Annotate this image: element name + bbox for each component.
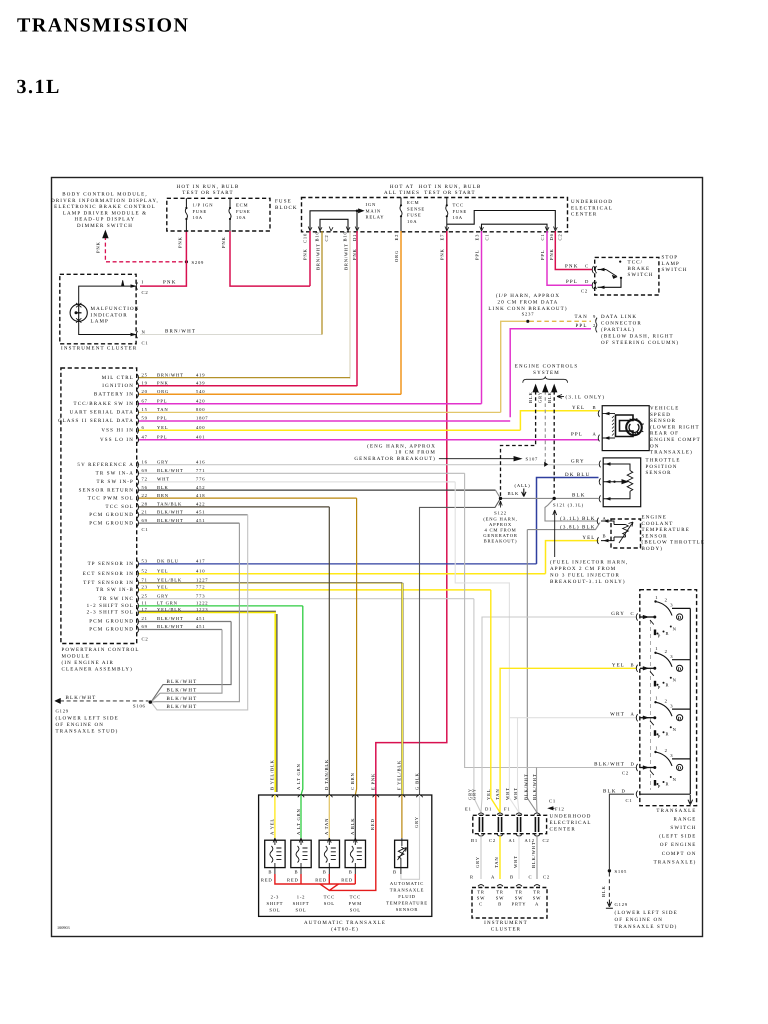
svg-text:BRN/WHT: BRN/WHT — [157, 372, 184, 377]
svg-text:S209: S209 — [192, 260, 205, 265]
svg-text:GRY: GRY — [538, 391, 543, 403]
wire PNK C10 riser — [309, 231, 311, 286]
svg-text:S106: S106 — [133, 703, 146, 708]
switch internals — [598, 269, 607, 271]
svg-text:PPL: PPL — [157, 399, 167, 404]
svg-text:B: B — [603, 533, 607, 538]
svg-text:C: C — [585, 263, 589, 268]
transaxle pin E — [373, 795, 379, 797]
svg-text:3: 3 — [670, 603, 673, 608]
svg-text:SHIFT: SHIFT — [293, 901, 310, 906]
svg-text:BLK/WHT: BLK/WHT — [157, 616, 184, 621]
range switch section 4 — [636, 745, 690, 789]
svg-text:RED: RED — [287, 878, 299, 883]
svg-text:N: N — [142, 330, 146, 335]
svg-text:SWITCH: SWITCH — [662, 267, 688, 273]
svg-text:TR: TR — [533, 890, 541, 895]
wire BLK D C1 from bus — [640, 793, 690, 795]
svg-text:GENERATOR: GENERATOR — [483, 533, 518, 538]
svg-text:TRANSAXLE STUD): TRANSAXLE STUD) — [615, 924, 678, 930]
svg-text:BLK/WHT: BLK/WHT — [66, 695, 97, 701]
svg-text:B: B — [510, 874, 514, 879]
svg-text:RED: RED — [341, 878, 353, 883]
svg-text:(LOWER LEFT SIDE: (LOWER LEFT SIDE — [615, 910, 678, 916]
svg-text:S107: S107 — [526, 457, 539, 462]
svg-text:410: 410 — [196, 568, 205, 573]
svg-text:C1: C1 — [485, 234, 490, 241]
svg-text:(ENG HARN,: (ENG HARN, — [483, 517, 517, 522]
svg-text:451: 451 — [196, 518, 205, 523]
svg-text:10A: 10A — [453, 215, 463, 220]
svg-text:GRY: GRY — [472, 788, 477, 800]
label I/P harn S237 — [488, 293, 567, 316]
svg-text:TAN: TAN — [157, 407, 168, 412]
svg-text:(4T60-E): (4T60-E) — [331, 927, 359, 933]
svg-text:(FUEL INJECTOR HARN,: (FUEL INJECTOR HARN, — [550, 560, 628, 566]
svg-text:PNK: PNK — [96, 241, 101, 253]
svg-text:UNDERHOOD: UNDERHOOD — [550, 814, 592, 820]
dashed BLK to G129 — [608, 873, 610, 900]
svg-text:TEMPERATURE: TEMPERATURE — [642, 527, 691, 533]
svg-text:B YEL/BLK: B YEL/BLK — [270, 759, 275, 790]
underhood electrical center box — [302, 198, 568, 232]
svg-text:D: D — [622, 788, 626, 793]
transaxle pin D — [326, 795, 332, 797]
svg-text:A LT GRN: A LT GRN — [296, 808, 301, 835]
svg-text:E PNK: E PNK — [371, 773, 376, 790]
svg-text:47: 47 — [142, 435, 148, 440]
svg-text:SENSE: SENSE — [407, 206, 425, 211]
svg-text:C10: C10 — [303, 233, 308, 243]
wire YEL 400 riser to VSS B — [520, 411, 598, 431]
svg-text:C2: C2 — [543, 838, 550, 843]
wire ORG E2 riser to PCM 20 — [400, 231, 402, 394]
wire BRN/WHT B10 riser to IC — [321, 231, 323, 335]
svg-text:P: P — [658, 634, 661, 639]
svg-text:BREAKOUT): BREAKOUT) — [484, 539, 518, 544]
svg-text:BLK: BLK — [547, 391, 552, 403]
wire BLK to S105 — [609, 794, 634, 869]
svg-text:11: 11 — [142, 601, 148, 606]
svg-text:GRY: GRY — [571, 459, 585, 465]
svg-text:AUTOMATIC TRANSAXLE: AUTOMATIC TRANSAXLE — [304, 920, 386, 926]
label hot in run — [177, 184, 240, 196]
svg-text:9: 9 — [593, 314, 596, 319]
svg-text:HOT IN RUN, BULB: HOT IN RUN, BULB — [177, 184, 240, 190]
svg-text:2: 2 — [665, 748, 668, 753]
svg-text:451: 451 — [196, 624, 205, 629]
svg-text:ECT SENSOR IN: ECT SENSOR IN — [83, 571, 134, 577]
svg-text:TR SW IN-A: TR SW IN-A — [96, 471, 134, 477]
svg-text:HEAD-UP DISPLAY: HEAD-UP DISPLAY — [75, 217, 136, 223]
S122 label — [483, 511, 518, 544]
svg-text:WHT: WHT — [157, 477, 170, 482]
svg-text:OF ENGINE: OF ENGINE — [660, 842, 697, 848]
dashed BLK/WHT to G129 left — [60, 700, 149, 702]
svg-text:MIL CTRL: MIL CTRL — [102, 375, 134, 381]
svg-text:NO 3 FUEL INJECTOR: NO 3 FUEL INJECTOR — [550, 573, 620, 579]
wire F12 to cluster at 500.0 — [499, 836, 501, 879]
wire BRN/WHT B10 riser to PCM MIL — [349, 231, 351, 379]
svg-text:451: 451 — [196, 510, 205, 515]
svg-text:INSTRUMENT: INSTRUMENT — [484, 920, 528, 926]
svg-text:422: 422 — [196, 502, 205, 507]
svg-text:TEMPERATURE: TEMPERATURE — [386, 901, 428, 906]
svg-text:ENGINE CONTROLS: ENGINE CONTROLS — [515, 364, 579, 370]
svg-text:YEL: YEL — [157, 585, 168, 590]
svg-text:BATTERY IN: BATTERY IN — [94, 391, 134, 397]
wire S121 to TPS BLK — [554, 497, 598, 499]
svg-text:C2: C2 — [581, 289, 588, 294]
svg-text:INDICATOR: INDICATOR — [91, 312, 128, 318]
svg-text:(BELOW THROTTLE: (BELOW THROTTLE — [642, 540, 706, 546]
svg-text:B: B — [349, 870, 353, 875]
svg-text:ENGINE: ENGINE — [642, 515, 668, 521]
svg-text:D: D — [631, 762, 635, 767]
svg-text:GENERATOR BREAKOUT): GENERATOR BREAKOUT) — [354, 456, 436, 462]
svg-text:28: 28 — [142, 502, 148, 507]
svg-text:21: 21 — [142, 510, 148, 515]
connector bar at 519.0 — [517, 817, 520, 832]
svg-text:771: 771 — [196, 468, 205, 473]
svg-text:10A: 10A — [236, 215, 246, 220]
svg-text:MODULE: MODULE — [62, 654, 90, 660]
TCC fuse bus bars — [447, 211, 556, 230]
wire F12 to cluster at 519.0 — [518, 836, 520, 879]
svg-text:TR SW INC: TR SW INC — [99, 596, 134, 602]
svg-text:FUSE: FUSE — [193, 209, 207, 214]
svg-text:A: A — [491, 874, 495, 879]
wire PNK ECM fuse to UEC C10 — [230, 231, 310, 286]
transaxle pin B — [272, 795, 278, 797]
svg-text:TR: TR — [477, 890, 485, 895]
wire BRN 418 riser to transaxle C — [355, 498, 356, 795]
F12 underhood electrical center connector box — [473, 815, 547, 833]
label hot at all times — [384, 184, 481, 196]
svg-text:D: D — [678, 716, 682, 722]
svg-text:OF ENGINE ON: OF ENGINE ON — [615, 917, 664, 923]
svg-text:C2: C2 — [543, 874, 550, 879]
svg-text:CLASS II SERIAL DATA: CLASS II SERIAL DATA — [58, 418, 134, 424]
svg-text:VSS LO IN: VSS LO IN — [100, 437, 134, 443]
svg-text:20: 20 — [142, 389, 148, 394]
svg-text:P: P — [658, 685, 661, 690]
svg-text:B: B — [295, 870, 299, 875]
svg-text:B10: B10 — [343, 231, 348, 241]
wire F12 to cluster at 481.0 — [480, 836, 482, 879]
svg-text:TRANSAXLE): TRANSAXLE) — [654, 859, 697, 865]
svg-text:C2: C2 — [558, 234, 563, 241]
svg-text:2: 2 — [665, 698, 668, 703]
wire TAN dashed to DLC 9 — [529, 320, 591, 322]
svg-text:C1: C1 — [626, 798, 633, 803]
svg-text:451: 451 — [196, 616, 205, 621]
svg-text:TR: TR — [496, 890, 504, 895]
pin arrows on UEC bottom — [308, 227, 312, 232]
svg-text:SENSOR: SENSOR — [650, 418, 676, 424]
svg-text:A YEL: A YEL — [270, 818, 275, 835]
svg-text:COMPT ON: COMPT ON — [662, 851, 697, 857]
svg-text:PCM GROUND: PCM GROUND — [89, 512, 134, 518]
svg-text:A: A — [535, 902, 539, 907]
dashed BLK arrow 1 — [501, 391, 536, 496]
transaxle pin F — [399, 795, 405, 797]
wire F12 to cluster at 537.0 — [536, 836, 538, 879]
svg-text:D6: D6 — [549, 233, 554, 240]
svg-text:APPROX: APPROX — [489, 522, 512, 527]
svg-text:25: 25 — [142, 372, 148, 377]
svg-text:420: 420 — [196, 399, 205, 404]
svg-text:BLK: BLK — [157, 485, 169, 490]
wire PNK D6 riser to brake switch C — [555, 231, 592, 270]
solenoid 4 wire — [354, 795, 356, 838]
connector bar at 537.0 — [535, 817, 538, 832]
DLC connector brackets — [596, 318, 597, 325]
ECM SENSE fuse — [400, 198, 402, 232]
svg-text:P: P — [658, 734, 661, 739]
svg-text:SENSOR: SENSOR — [646, 470, 672, 476]
svg-text:773: 773 — [196, 593, 205, 598]
svg-text:D: D — [678, 666, 682, 672]
svg-text:TAN: TAN — [494, 857, 499, 868]
svg-text:1: 1 — [655, 745, 658, 750]
svg-text:YEL: YEL — [582, 535, 595, 541]
svg-text:PNK: PNK — [549, 248, 554, 260]
svg-text:N: N — [673, 626, 677, 631]
svg-text:10 CM FROM: 10 CM FROM — [395, 450, 436, 456]
svg-text:G BLK: G BLK — [414, 772, 419, 790]
svg-text:C: C — [631, 611, 635, 616]
svg-text:3.1L: 3.1L — [17, 76, 61, 98]
range switch section 2 — [636, 646, 690, 690]
svg-text:ELECTRONIC BRAKE CONTROL: ELECTRONIC BRAKE CONTROL — [54, 204, 156, 210]
svg-text:BODY CONTROL MODULE,: BODY CONTROL MODULE, — [62, 192, 148, 198]
svg-text:TCC/: TCC/ — [628, 260, 644, 266]
svg-text:401: 401 — [196, 435, 205, 440]
wire BLK S122 branch to transaxle G — [420, 498, 501, 795]
svg-text:E2: E2 — [394, 234, 399, 241]
svg-text:E1: E1 — [465, 806, 472, 811]
svg-text:3: 3 — [670, 654, 673, 659]
svg-text:S121 (3.1L): S121 (3.1L) — [553, 503, 584, 508]
node S237 — [526, 320, 529, 323]
wire TAN/BLK 422 riser to transaxle D — [328, 507, 330, 795]
svg-text:22: 22 — [142, 493, 148, 498]
wire LT GRN 1222 riser to transaxle A — [301, 606, 303, 795]
svg-text:A: A — [593, 431, 597, 436]
svg-text:1807: 1807 — [196, 416, 208, 421]
svg-text:(3.1L) BLK: (3.1L) BLK — [560, 516, 595, 522]
svg-text:YEL: YEL — [157, 425, 168, 430]
svg-text:GRY: GRY — [611, 611, 625, 617]
svg-text:RED: RED — [315, 878, 327, 883]
svg-text:F YEL/BLK: F YEL/BLK — [397, 760, 402, 790]
svg-text:69: 69 — [142, 624, 148, 629]
svg-text:A1: A1 — [509, 838, 516, 843]
wire PPL E3 riser to PCM 67 — [481, 231, 483, 404]
svg-text:C1: C1 — [540, 234, 545, 241]
(3.1L ONLY) arrow — [557, 395, 564, 399]
automatic transaxle box — [259, 795, 432, 916]
wire BRN/WHT IC to UEC B10 — [140, 334, 322, 336]
svg-text:439: 439 — [196, 381, 205, 386]
svg-text:59: 59 — [142, 416, 148, 421]
svg-text:BRN/WHT: BRN/WHT — [344, 243, 349, 270]
svg-text:OF STEERING COLUMN): OF STEERING COLUMN) — [601, 340, 679, 346]
svg-text:BODY): BODY) — [642, 546, 664, 552]
svg-text:A BLK: A BLK — [350, 818, 355, 835]
svg-text:S105: S105 — [615, 869, 628, 874]
svg-text:(I/P HARN, APPROX: (I/P HARN, APPROX — [496, 293, 560, 299]
wire color labels below UEC — [303, 243, 555, 270]
svg-text:BRN/WHT: BRN/WHT — [165, 328, 196, 334]
svg-text:72: 72 — [142, 477, 148, 482]
svg-text:BLK: BLK — [601, 885, 606, 897]
svg-text:3: 3 — [670, 703, 673, 708]
svg-text:TCC/BRAKE SW IN: TCC/BRAKE SW IN — [74, 401, 135, 407]
svg-text:RELAY: RELAY — [366, 215, 385, 220]
svg-text:SW: SW — [477, 896, 486, 901]
svg-text:POSITION: POSITION — [646, 464, 678, 470]
svg-text:GRY: GRY — [157, 459, 169, 464]
svg-text:BLOCK: BLOCK — [275, 205, 298, 211]
svg-text:D: D — [678, 615, 682, 621]
node S107 — [544, 462, 548, 467]
svg-text:C1: C1 — [142, 527, 149, 532]
svg-text:19: 19 — [142, 381, 148, 386]
svg-text:RED: RED — [370, 818, 375, 830]
svg-text:23: 23 — [142, 585, 148, 590]
svg-text:776: 776 — [196, 477, 205, 482]
wire GRY TFT return to pin G — [401, 795, 420, 879]
svg-text:TCC: TCC — [324, 895, 335, 900]
wire GRY switch C feed — [482, 617, 636, 798]
svg-text:TRANSAXLE): TRANSAXLE) — [650, 450, 693, 456]
svg-text:SHIFT: SHIFT — [267, 901, 284, 906]
svg-text:10A: 10A — [193, 215, 203, 220]
eng harn generator note — [354, 443, 436, 462]
svg-text:SENSOR: SENSOR — [396, 907, 419, 912]
svg-text:417: 417 — [196, 559, 205, 564]
svg-text:WHT: WHT — [513, 855, 518, 868]
svg-text:BLK/WHT: BLK/WHT — [531, 841, 536, 868]
svg-text:PNK: PNK — [221, 236, 226, 248]
svg-text:C: C — [479, 902, 483, 907]
UEC pin labels rotated — [303, 231, 563, 243]
svg-text:BLK/WHT: BLK/WHT — [157, 468, 184, 473]
svg-text:ECM: ECM — [407, 200, 419, 205]
node S106 — [149, 700, 152, 703]
svg-text:UNDERHOOD: UNDERHOOD — [571, 199, 613, 205]
svg-text:ON: ON — [650, 443, 660, 449]
svg-text:ALL TIMES: ALL TIMES — [384, 190, 420, 196]
svg-text:R: R — [470, 874, 474, 879]
svg-text:100903: 100903 — [57, 925, 70, 930]
svg-text:PPL: PPL — [540, 250, 545, 260]
svg-text:BLK/WHT: BLK/WHT — [167, 704, 198, 710]
svg-text:SOL: SOL — [350, 908, 361, 913]
svg-text:21: 21 — [142, 616, 148, 621]
svg-text:IGN: IGN — [366, 202, 377, 207]
svg-text:PPL: PPL — [157, 435, 167, 440]
svg-text:FUSE: FUSE — [453, 209, 467, 214]
svg-text:LAMP: LAMP — [91, 319, 110, 325]
svg-text:OF ENGINE ON: OF ENGINE ON — [56, 722, 105, 728]
svg-text:(BELOW DASH, RIGHT: (BELOW DASH, RIGHT — [601, 334, 674, 340]
svg-text:D1: D1 — [485, 806, 492, 811]
svg-text:71: 71 — [142, 578, 148, 583]
wire PNK dashed to BCM — [105, 236, 184, 262]
wire BLK 452 into S122 — [496, 490, 501, 498]
svg-text:SWITCH: SWITCH — [670, 825, 696, 831]
svg-text:53: 53 — [142, 559, 148, 564]
svg-text:BLK/WHT: BLK/WHT — [157, 624, 184, 629]
svg-text:800: 800 — [196, 407, 205, 412]
ground G129 — [606, 900, 613, 909]
wire lamp to N C1 — [79, 321, 135, 334]
svg-text:BRN/WHT: BRN/WHT — [316, 243, 321, 270]
svg-text:1: 1 — [655, 595, 658, 600]
svg-text:BLK/WHT: BLK/WHT — [157, 518, 184, 523]
svg-text:D: D — [678, 766, 682, 772]
wire WHT tap to F12 F1 — [518, 718, 520, 813]
VSS internal wires — [602, 414, 615, 438]
wire PPL 1807 to DLC 2 — [510, 329, 591, 418]
VSS rotor — [626, 420, 642, 436]
svg-text:C2: C2 — [142, 637, 149, 642]
svg-text:PWM: PWM — [349, 901, 362, 906]
svg-text:C BRN: C BRN — [350, 772, 355, 790]
svg-text:C2: C2 — [324, 235, 329, 242]
svg-text:A TAN: A TAN — [324, 818, 329, 835]
svg-text:B: B — [498, 902, 502, 907]
svg-text:TP SENSOR IN: TP SENSOR IN — [88, 561, 134, 567]
svg-text:UART SERIAL DATA: UART SERIAL DATA — [70, 410, 134, 416]
connector brackets — [592, 266, 596, 273]
svg-text:ECM: ECM — [236, 203, 248, 208]
svg-text:G129: G129 — [56, 708, 69, 713]
svg-text:HOT IN RUN, BULB: HOT IN RUN, BULB — [419, 184, 482, 190]
BLK/WHT ground wires to S106 — [151, 622, 231, 703]
svg-text:400: 400 — [196, 425, 205, 430]
svg-text:YEL: YEL — [157, 568, 168, 573]
transaxle pin G — [416, 795, 422, 797]
VSS coil core — [616, 415, 634, 437]
svg-text:GRY: GRY — [157, 593, 169, 598]
range switch section 1 — [636, 595, 690, 639]
svg-text:A LT GRN: A LT GRN — [296, 763, 301, 790]
svg-text:TAN: TAN — [495, 789, 500, 800]
wire TAN from PCM 15 up to S237 — [501, 321, 527, 412]
wire S122 to S121 — [501, 497, 555, 499]
svg-text:(LOWER RIGHT: (LOWER RIGHT — [650, 424, 700, 430]
wire TAN switch B feed to F12 D1 — [500, 668, 636, 812]
border frame — [52, 178, 703, 937]
svg-text:R: R — [666, 631, 670, 636]
solenoid 1 wire — [274, 795, 276, 838]
svg-text:SENSOR RETURN: SENSOR RETURN — [79, 487, 134, 493]
TCC brake switch box — [595, 257, 659, 295]
wire YEL 772 riser to F12 D1 — [491, 590, 500, 813]
svg-text:WHT: WHT — [513, 787, 518, 800]
red solenoid return bus — [275, 874, 355, 884]
svg-text:BLK/WHT: BLK/WHT — [167, 687, 198, 693]
svg-text:15: 15 — [142, 407, 148, 412]
svg-text:TEST OR START: TEST OR START — [424, 190, 475, 196]
svg-text:YEL: YEL — [572, 405, 585, 411]
svg-text:PCM GROUND: PCM GROUND — [89, 627, 134, 633]
automatic transaxle fluid temperature sensor — [401, 795, 403, 838]
